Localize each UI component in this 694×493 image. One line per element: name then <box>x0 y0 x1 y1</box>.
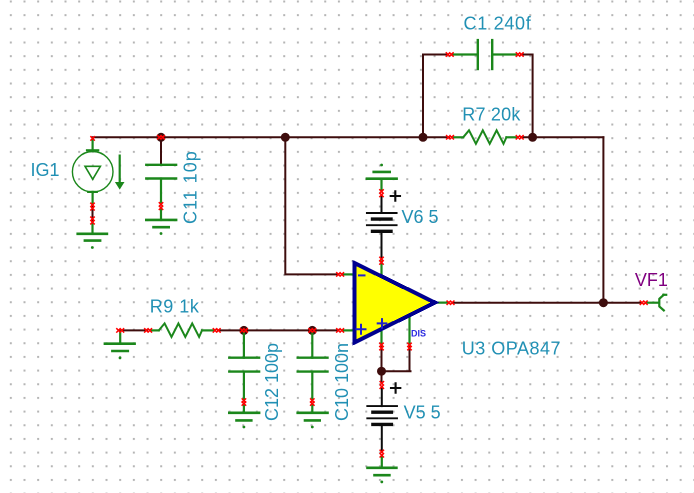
wire: C1 right to right riser <box>521 55 533 138</box>
op-amp U3 positive supply marker + <box>378 319 387 328</box>
node: supply V5 <box>377 367 386 376</box>
wire: bottom input net <box>121 329 339 331</box>
ground (R9 input) <box>105 332 135 360</box>
node: C11 tap <box>157 133 166 142</box>
pin mark: U3 DIS pin <box>408 343 411 350</box>
pin mark: C12 top pin on junction <box>241 329 248 332</box>
node: C12 tap <box>239 326 248 335</box>
capacitor C1 <box>452 40 518 69</box>
svg-text:V6 5: V6 5 <box>402 207 439 227</box>
svg-text:DIS: DIS <box>411 329 426 339</box>
pin mark: C1 right pin <box>516 53 523 56</box>
node: output <box>599 298 608 307</box>
pin mark: C12 bottom pin <box>242 399 245 405</box>
op-amp U3 triangle <box>354 263 435 343</box>
wire: IG1 pin link <box>92 206 94 221</box>
pin mark: VF1 terminal pin <box>640 301 647 304</box>
battery V6 <box>367 191 400 257</box>
wire: op-amp output to junction <box>452 302 603 304</box>
resistor R7 <box>452 130 517 144</box>
ground (IG1) <box>78 222 107 249</box>
svg-text:VF1: VF1 <box>635 270 668 290</box>
node: feedback right <box>528 133 537 142</box>
wire: DIS pin down and left <box>382 347 411 371</box>
ground (V5) <box>368 457 397 484</box>
wire: C11 top stem <box>160 137 162 164</box>
pin mark: ground pin left of R9 <box>117 329 124 332</box>
svg-text:U3 OPA847: U3 OPA847 <box>462 338 561 358</box>
ground (C11) <box>146 220 176 235</box>
current source IG1 <box>72 140 123 205</box>
battery V5 <box>367 383 400 450</box>
pin mark: U3 V+ pin <box>380 257 383 264</box>
node: inverting tap <box>281 133 290 142</box>
pin mark: C11 bottom pin <box>159 203 162 210</box>
svg-text:C11 10p: C11 10p <box>180 150 200 224</box>
resistor R9 <box>151 323 215 337</box>
pin mark: R7 left pin <box>447 136 454 139</box>
pin mark: C10 bottom pin <box>311 399 314 405</box>
pin mark: R9 right pin <box>213 329 220 332</box>
node: C10 tap <box>308 326 317 335</box>
ground (C10) <box>298 413 328 429</box>
wire: feedback left riser to C1 <box>423 55 448 138</box>
capacitor C11 <box>146 165 176 220</box>
pin mark: V6 positive pin <box>380 190 383 197</box>
svg-text:R9 1k: R9 1k <box>150 297 200 317</box>
pin mark: R7 right pin <box>516 136 523 139</box>
wire: junction to V5 <box>381 371 383 383</box>
capacitor C12 <box>229 332 259 413</box>
svg-text:R7 20k: R7 20k <box>462 105 521 125</box>
pin mark: U3 V- pin <box>380 343 383 350</box>
svg-text:C1 240f: C1 240f <box>464 14 532 34</box>
pin mark: R9 left pin <box>145 329 152 332</box>
pin mark: C11 top pin on junction <box>158 136 165 139</box>
flipped ground (above V6) <box>367 164 397 190</box>
pin mark: U3 non-inverting input pin <box>337 329 344 332</box>
pin mark: C10 top pin on junction <box>309 329 316 332</box>
pin mark: U3 inverting input pin <box>337 273 344 276</box>
wire: right vertical to output <box>602 137 604 302</box>
pin mark: V5 negative pin <box>380 450 383 457</box>
red pin connection marks <box>91 53 647 457</box>
wire: output junction to VF1 <box>603 302 640 304</box>
pin mark: U3 output pin <box>447 301 454 304</box>
svg-text:V5 5: V5 5 <box>404 402 441 422</box>
capacitor C10 <box>298 332 328 413</box>
pin mark: C1 left pin <box>446 53 453 56</box>
wire: main top net <box>93 136 604 138</box>
svg-text:C12 100p: C12 100p <box>262 343 282 421</box>
op-amp U3 non-inverting input marker + <box>357 325 366 334</box>
svg-text:C10 100n: C10 100n <box>332 343 352 421</box>
ground (C12) <box>229 413 259 429</box>
pin mark: IG1 top pin <box>91 137 94 140</box>
svg-text:IG1: IG1 <box>31 160 60 180</box>
op-amp U3 inverting input marker - <box>359 274 365 276</box>
node junction dots <box>157 133 608 376</box>
wire: inverting input tap <box>285 137 338 274</box>
pin mark: ground pin below IG1 <box>91 217 94 224</box>
wire: op-amp V- pin down <box>381 347 383 371</box>
VF1 output terminal <box>647 295 666 311</box>
node: feedback left <box>419 133 428 142</box>
pin mark: V5 positive pin <box>380 382 383 389</box>
op-amp pins U3 <box>342 262 448 346</box>
pin mark: IG1 bottom pin <box>91 203 94 210</box>
